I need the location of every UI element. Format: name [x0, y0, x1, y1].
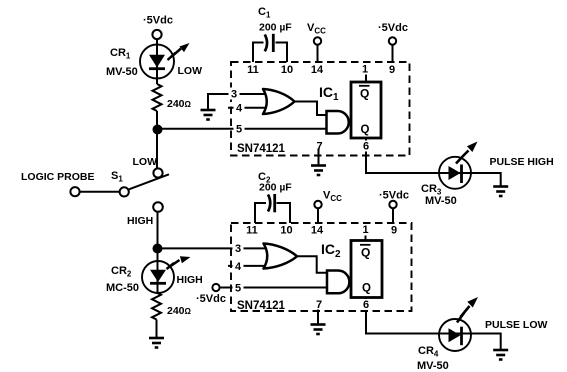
svg-text:14: 14	[311, 64, 324, 76]
svg-text:LOW: LOW	[133, 156, 158, 168]
svg-text:·5Vdc: ·5Vdc	[143, 15, 173, 27]
svg-text:HIGH: HIGH	[177, 274, 203, 286]
svg-text:240Ω: 240Ω	[167, 98, 192, 110]
svg-text:·5Vdc: ·5Vdc	[379, 190, 409, 202]
svg-text:Q: Q	[361, 246, 370, 260]
svg-text:11: 11	[247, 64, 259, 76]
svg-text:10: 10	[281, 64, 293, 76]
svg-text:1: 1	[362, 224, 368, 236]
svg-text:MV-50: MV-50	[106, 66, 138, 78]
svg-text:·5Vdc: ·5Vdc	[378, 22, 408, 34]
svg-text:6: 6	[363, 299, 369, 311]
svg-text:·5Vdc: ·5Vdc	[196, 293, 226, 305]
svg-text:7: 7	[316, 141, 322, 153]
svg-text:3: 3	[235, 243, 241, 255]
svg-text:6: 6	[363, 141, 369, 153]
svg-text:LOGIC PROBE: LOGIC PROBE	[21, 171, 95, 183]
svg-text:4: 4	[235, 261, 242, 273]
svg-text:5: 5	[235, 283, 241, 295]
svg-text:9: 9	[389, 64, 395, 76]
svg-text:240Ω: 240Ω	[167, 305, 192, 317]
svg-text:MC-50: MC-50	[106, 282, 139, 294]
svg-text:MV-50: MV-50	[425, 195, 457, 207]
svg-text:Q: Q	[362, 283, 371, 295]
svg-text:HIGH: HIGH	[127, 215, 153, 227]
svg-text:PULSE HIGH: PULSE HIGH	[490, 156, 554, 168]
svg-text:PULSE LOW: PULSE LOW	[485, 319, 548, 331]
svg-text:200 µF: 200 µF	[259, 22, 292, 34]
svg-text:1: 1	[362, 64, 368, 76]
svg-text:5: 5	[236, 124, 242, 136]
svg-text:7: 7	[316, 299, 322, 311]
svg-text:14: 14	[311, 225, 324, 237]
svg-text:3: 3	[231, 89, 237, 101]
svg-text:4: 4	[236, 103, 243, 115]
svg-text:200 µF: 200 µF	[259, 182, 292, 194]
svg-text:11: 11	[246, 225, 258, 237]
svg-text:SN74121: SN74121	[237, 300, 286, 312]
svg-text:Q: Q	[361, 124, 370, 136]
svg-text:MV-50: MV-50	[417, 360, 449, 372]
svg-text:LOW: LOW	[178, 65, 203, 77]
svg-text:Q: Q	[360, 87, 369, 101]
svg-text:SN74121: SN74121	[237, 143, 286, 155]
svg-text:9: 9	[391, 225, 397, 237]
svg-text:10: 10	[280, 225, 292, 237]
